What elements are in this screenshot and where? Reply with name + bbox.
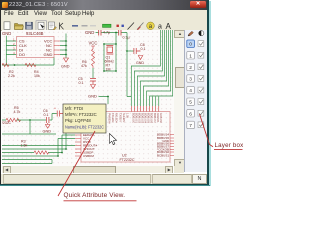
annotation leader line to layer box [200, 114, 214, 147]
power VCC symbol [89, 41, 98, 49]
layer checkbox 3 [198, 76, 204, 82]
wire [96, 32, 128, 34]
layer checkbox 5 [198, 99, 204, 105]
annotation underline Layer box [214, 149, 243, 151]
layer button 2 [187, 63, 195, 70]
annotation underline Quick Attribute View [64, 200, 137, 202]
wire [2, 146, 75, 157]
junction dots [65, 40, 67, 42]
layer checkbox 6 [198, 110, 204, 116]
wire [92, 68, 94, 78]
wire [99, 97, 109, 105]
capacitor C5 [90, 79, 96, 85]
junction dot [29, 119, 31, 121]
pin stubs U2 right [170, 135, 175, 156]
layer button 0 (selected) [187, 40, 195, 47]
ground symbol below C8 [138, 56, 142, 60]
junction dots crystal loop [103, 43, 105, 45]
crystal Q1 [106, 46, 114, 60]
capacitor C6 [47, 117, 49, 125]
wire [2, 120, 56, 134]
wire [126, 33, 128, 97]
ground symbol below C5 [91, 85, 96, 89]
wire [127, 97, 159, 107]
pin stubs U2 left [75, 132, 81, 157]
wire [127, 50, 134, 52]
junction dot [126, 50, 128, 52]
junction dot [14, 64, 16, 66]
capacitor C4 0.1u [119, 30, 121, 36]
IC U1 93LC46B [17, 31, 55, 58]
layer button 6 [187, 110, 195, 117]
pin labels U2 top (rotated) [108, 113, 162, 124]
wire [58, 132, 75, 157]
resistor R2 [2, 63, 9, 66]
wire [5, 36, 7, 65]
capacitor C3 4.7u [99, 30, 101, 36]
layer button 7 [187, 121, 195, 128]
capacitor C8 [134, 48, 141, 54]
layer checkbox 4 [198, 87, 204, 93]
ground symbol below C6 [45, 125, 50, 129]
layer checkbox 2 [198, 64, 204, 70]
junction dot [107, 96, 109, 98]
resistor R4 [25, 63, 36, 66]
wire [2, 58, 54, 66]
layer checkbox 7 [198, 122, 204, 128]
wire [2, 153, 62, 164]
wire [2, 114, 57, 121]
mouse cursor [110, 134, 117, 145]
capacitor C7 polarized (left of tooltip) [57, 111, 63, 117]
resistor R5 [6, 106, 21, 122]
ground symbol right of U1 [64, 58, 69, 62]
tooltip Quick Attribute View box [63, 104, 106, 133]
layer button 3 [187, 75, 195, 82]
pin stubs U1 right [54, 41, 60, 55]
resistor R3 [34, 151, 49, 154]
layer button 4 [187, 86, 195, 93]
pen tool icon [188, 31, 193, 36]
pin labels U2 right [157, 133, 170, 158]
layer button 5 [187, 98, 195, 105]
layer button 1 [187, 52, 195, 59]
junction dots [65, 148, 67, 150]
wire [60, 34, 66, 59]
pin labels U2 left [83, 130, 98, 159]
layer checkbox 1 [198, 52, 204, 58]
wire [6, 41, 16, 55]
wire bus (nested bends) [131, 30, 172, 106]
pin stubs U2 top [131, 106, 158, 112]
IC U2 FT2232C [81, 112, 170, 163]
layer checkbox 0 [198, 41, 204, 47]
contrast circle icon [199, 31, 204, 36]
annotation leader line to tooltip [58, 131, 95, 196]
resistor R6 [92, 49, 95, 68]
wire [104, 33, 116, 72]
